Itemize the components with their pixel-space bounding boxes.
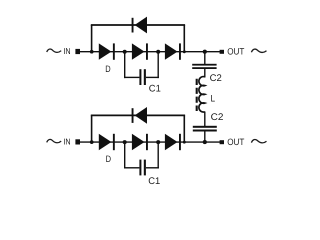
svg-text:IN: IN	[63, 136, 70, 146]
svg-text:C1: C1	[148, 176, 160, 187]
svg-text:C1: C1	[149, 83, 161, 94]
svg-text:IN: IN	[63, 46, 70, 56]
svg-text:L: L	[211, 93, 216, 104]
svg-text:C2: C2	[211, 112, 224, 123]
svg-text:D: D	[106, 154, 112, 164]
svg-text:OUT: OUT	[227, 47, 245, 57]
svg-text:C2: C2	[210, 73, 222, 84]
svg-text:D: D	[105, 64, 111, 74]
svg-text:OUT: OUT	[227, 137, 245, 147]
